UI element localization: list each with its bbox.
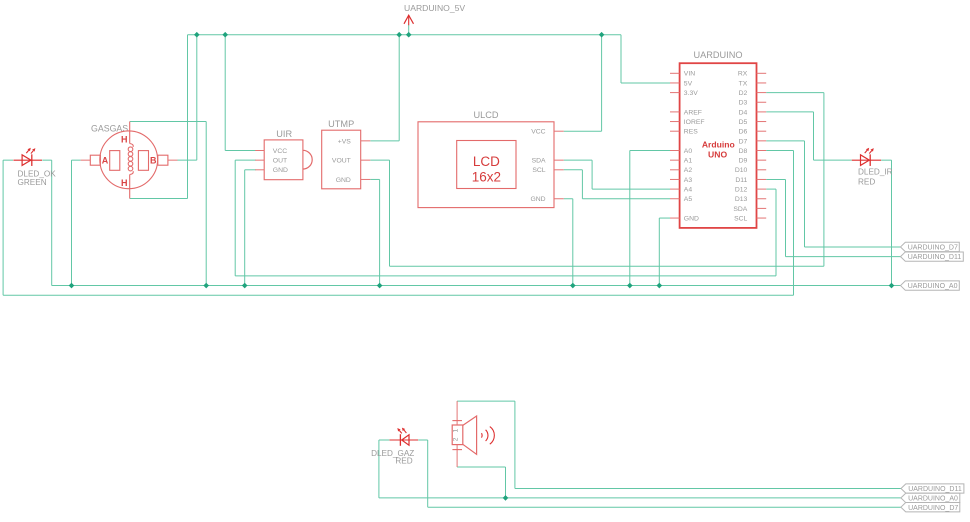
svg-text:GND: GND	[530, 196, 545, 203]
svg-text:OUT: OUT	[273, 158, 287, 165]
svg-text:16x2: 16x2	[472, 170, 501, 185]
svg-text:+VS: +VS	[338, 138, 352, 145]
svg-text:D11: D11	[735, 177, 747, 184]
svg-text:3.3V: 3.3V	[684, 90, 698, 97]
svg-text:UARDUINO_D7: UARDUINO_D7	[908, 245, 958, 252]
svg-text:RES: RES	[684, 129, 698, 136]
svg-text:UARDUINO_D11: UARDUINO_D11	[908, 486, 962, 493]
svg-text:GND: GND	[336, 177, 351, 184]
svg-text:B: B	[150, 155, 157, 165]
svg-text:DLED_IR: DLED_IR	[858, 167, 893, 176]
svg-text:A3: A3	[684, 177, 693, 184]
svg-text:A1: A1	[684, 158, 693, 165]
svg-text:A0: A0	[684, 148, 693, 155]
svg-text:SDA: SDA	[733, 206, 747, 213]
svg-text:LCD: LCD	[473, 154, 500, 169]
svg-text:RED: RED	[395, 457, 412, 466]
svg-text:D10: D10	[735, 167, 748, 174]
svg-text:IOREF: IOREF	[684, 119, 705, 126]
svg-text:GND: GND	[273, 167, 288, 174]
svg-text:UTMP: UTMP	[328, 119, 354, 129]
svg-text:5V: 5V	[684, 80, 693, 87]
svg-text:D5: D5	[739, 119, 748, 126]
svg-text:A2: A2	[684, 167, 693, 174]
svg-text:2: 2	[453, 437, 460, 441]
svg-text:AREF: AREF	[684, 109, 702, 116]
svg-text:UARDUINO_D7: UARDUINO_D7	[908, 505, 958, 512]
svg-text:ULCD: ULCD	[473, 110, 498, 120]
svg-text:GND: GND	[684, 215, 699, 222]
svg-text:UARDUINO_D11: UARDUINO_D11	[908, 254, 962, 261]
svg-text:A5: A5	[684, 196, 693, 203]
svg-text:H: H	[121, 135, 128, 145]
svg-text:H: H	[121, 178, 128, 188]
svg-text:D13: D13	[735, 196, 748, 203]
svg-text:UIR: UIR	[276, 129, 292, 139]
svg-text:1: 1	[453, 428, 460, 432]
svg-text:D3: D3	[739, 100, 748, 107]
svg-text:UARDUINO_A0: UARDUINO_A0	[908, 496, 958, 503]
svg-text:VCC: VCC	[531, 129, 545, 136]
svg-text:D9: D9	[739, 158, 748, 165]
svg-text:SCL: SCL	[734, 215, 747, 222]
svg-text:GREEN: GREEN	[18, 178, 47, 187]
svg-text:UARDUINO_A0: UARDUINO_A0	[908, 283, 958, 290]
svg-text:TX: TX	[739, 80, 748, 87]
svg-text:RX: RX	[738, 71, 748, 78]
svg-text:Arduino: Arduino	[702, 139, 735, 149]
svg-text:D8: D8	[739, 148, 748, 155]
svg-text:D12: D12	[735, 187, 748, 194]
svg-text:SDA: SDA	[532, 158, 546, 165]
svg-text:UARDUINO_5V: UARDUINO_5V	[404, 3, 465, 13]
svg-text:A: A	[102, 155, 109, 165]
svg-text:VOUT: VOUT	[332, 158, 351, 165]
svg-text:RED: RED	[858, 178, 875, 187]
svg-text:D6: D6	[739, 129, 748, 136]
svg-text:VCC: VCC	[273, 148, 287, 155]
svg-text:UNO: UNO	[708, 150, 727, 160]
svg-text:D4: D4	[739, 109, 748, 116]
svg-text:A4: A4	[684, 187, 693, 194]
svg-text:UARDUINO: UARDUINO	[693, 50, 742, 60]
svg-text:SCL: SCL	[532, 167, 545, 174]
svg-text:D7: D7	[739, 138, 748, 145]
svg-text:VIN: VIN	[684, 71, 695, 78]
svg-text:D2: D2	[739, 90, 748, 97]
